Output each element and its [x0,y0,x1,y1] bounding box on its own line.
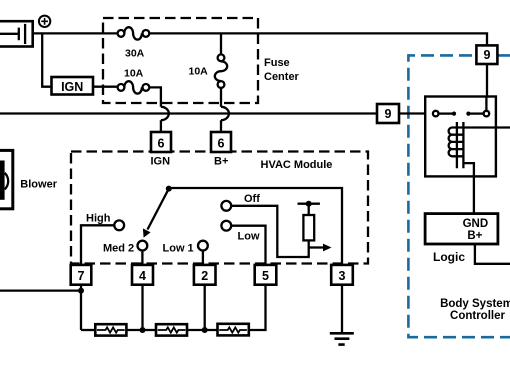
svg-text:4: 4 [139,269,146,283]
svg-text:Fuse: Fuse [264,57,290,69]
svg-text:6: 6 [158,137,165,151]
svg-text:B+: B+ [467,230,482,242]
svg-text:3: 3 [339,269,346,283]
svg-text:Med 2: Med 2 [103,242,134,254]
svg-text:Logic: Logic [433,250,465,264]
svg-text:10A: 10A [189,66,209,78]
svg-text:Center: Center [264,71,300,83]
svg-text:IGN: IGN [61,80,83,94]
svg-text:Blower: Blower [20,178,57,190]
svg-text:Low 1: Low 1 [163,242,194,254]
svg-text:6: 6 [218,137,225,151]
svg-text:Controller: Controller [450,310,505,322]
svg-text:Low: Low [238,231,260,243]
svg-text:5: 5 [262,269,269,283]
svg-text:30A: 30A [125,48,145,60]
svg-text:10A: 10A [124,68,144,80]
svg-text:9: 9 [484,48,491,62]
svg-text:Body System: Body System [440,298,510,310]
svg-text:2: 2 [201,269,208,283]
svg-text:IGN: IGN [151,156,171,168]
svg-text:7: 7 [78,269,85,283]
svg-text:B+: B+ [214,156,228,168]
svg-text:High: High [86,212,111,224]
svg-text:GND: GND [463,218,489,230]
svg-text:9: 9 [385,107,392,121]
svg-text:HVAC Module: HVAC Module [261,159,333,171]
svg-text:Off: Off [244,193,260,205]
